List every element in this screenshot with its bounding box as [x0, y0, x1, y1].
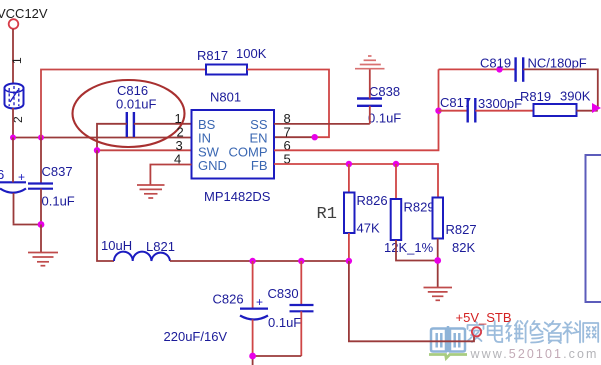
ground at IC pin4: [137, 185, 165, 198]
wire R829 top lead: [395, 164, 397, 199]
junction node SW: [94, 147, 100, 153]
char zi: [544, 321, 561, 343]
watermark chinese characters: [468, 321, 599, 343]
svg-text:12K_1%: 12K_1%: [384, 240, 434, 255]
node +5V_STB terminal circle: [472, 327, 481, 336]
capacitor C830: [268, 261, 314, 356]
resistor R819: [534, 104, 577, 116]
svg-text:0.01uF: 0.01uF: [116, 97, 157, 112]
svg-text:0.1uF: 0.1uF: [268, 315, 301, 330]
watermark book base: [429, 355, 467, 359]
wire FB pin5: [274, 164, 438, 198]
svg-text:R827: R827: [446, 222, 477, 237]
svg-text:C819: C819: [480, 56, 511, 71]
wire output to +5V_STB: [349, 261, 474, 341]
port arrow right: [592, 103, 601, 113]
junction node output C830: [298, 258, 304, 264]
wire bead to IN net: [12, 108, 14, 138]
svg-text:6: 6: [0, 167, 4, 182]
svg-text:10uH: 10uH: [101, 238, 132, 253]
wire C816 left plate to SW node: [97, 124, 127, 151]
ground inverted above C838: [355, 56, 385, 69]
wire C819 top row: [439, 68, 516, 70]
wire caps to ground junction: [14, 223, 42, 226]
wire R819 right to port: [577, 110, 598, 112]
ferrite bead F801: [5, 84, 24, 109]
wire R817 right to EN: [247, 70, 329, 138]
wire stub below C826 junction: [252, 356, 254, 365]
svg-text:R817: R817: [197, 48, 228, 63]
svg-text:390K: 390K: [560, 89, 591, 104]
capacitor C826: [164, 261, 269, 356]
wire R829 bottom to R827: [396, 240, 438, 261]
svg-text:C830: C830: [268, 286, 299, 301]
svg-text:FB: FB: [251, 158, 268, 173]
svg-text:R829: R829: [404, 200, 435, 215]
svg-text:47K: 47K: [357, 221, 380, 236]
svg-text:0.1uF: 0.1uF: [368, 111, 401, 126]
svg-text:C817: C817: [440, 95, 471, 110]
char jia: [468, 321, 484, 342]
node VCC12V terminal circle: [9, 19, 19, 29]
capacitor C837: [28, 138, 75, 225]
wire IN net horizontal: [13, 137, 192, 139]
connector J8 partial box right: [586, 155, 601, 302]
wire output net: [170, 260, 349, 262]
resistor R827: [433, 198, 444, 239]
svg-text:R819: R819: [520, 89, 551, 104]
wire C817 row: [439, 110, 468, 112]
watermark logo bottom right: [429, 321, 599, 361]
junction node R829-R827: [434, 257, 441, 264]
junction node output C826: [249, 258, 255, 264]
watermark book icon: [431, 326, 465, 352]
svg-text:0.1uF: 0.1uF: [42, 194, 75, 209]
svg-text:3300pF: 3300pF: [478, 96, 522, 111]
junction node FB-R829: [393, 161, 399, 167]
wire VCC12V to bead: [12, 29, 14, 84]
char wei: [506, 321, 523, 342]
svg-text:VCC12V: VCC12V: [0, 6, 48, 21]
svg-text:+5V_STB: +5V_STB: [456, 310, 512, 325]
resistor R829: [391, 199, 402, 240]
svg-text:100K: 100K: [236, 46, 267, 61]
capacitor C835 partial at left edge: [0, 138, 26, 224]
svg-text:C826: C826: [213, 292, 244, 307]
svg-text:GND: GND: [198, 158, 227, 173]
svg-text:MP1482DS: MP1482DS: [204, 189, 271, 204]
wire caps bottom net: [253, 355, 302, 357]
junction node output R826: [346, 258, 352, 264]
svg-text:www.520101.com: www.520101.com: [470, 347, 599, 361]
junction node EN: [312, 134, 318, 140]
wire R817 left leg: [41, 70, 206, 138]
wire EN pin7: [274, 136, 315, 138]
inductor L821: [101, 238, 175, 261]
char liao: [563, 321, 580, 343]
junction node C837 bottom: [38, 221, 45, 228]
svg-text:1: 1: [10, 57, 24, 64]
wire C819 right to port: [523, 69, 598, 107]
wire SW node down to L821: [97, 150, 114, 261]
svg-text:220uF/16V: 220uF/16V: [164, 329, 228, 344]
wire SW pin3: [97, 149, 192, 151]
wire C816 right plate to BS: [134, 123, 192, 125]
char dian: [488, 321, 503, 342]
junction node on C819 wire: [496, 66, 502, 72]
svg-text:C837: C837: [42, 164, 73, 179]
wire R826 top lead: [348, 164, 350, 193]
ground below R827: [424, 288, 453, 301]
wire SS pin8 to C838: [274, 123, 370, 125]
wire R826 bottom lead: [348, 233, 350, 261]
wire R827 bottom lead: [437, 239, 439, 288]
char xiu: [525, 321, 544, 343]
wire COMP pin6 to RC network: [274, 69, 439, 150]
capacitor C838: [357, 70, 401, 126]
svg-text:NC/180pF: NC/180pF: [528, 56, 587, 71]
resistor R826: [344, 193, 355, 234]
resistor R817: [206, 65, 247, 75]
junction node FB-R826: [346, 161, 352, 167]
capacitor C816: [116, 83, 157, 137]
highlight ellipse around C816: [73, 80, 185, 147]
svg-text:C838: C838: [369, 84, 400, 99]
ground below C837: [28, 253, 58, 266]
svg-text:82K: 82K: [452, 240, 475, 255]
wire junction to ground: [40, 225, 42, 253]
junction node caps bottom: [249, 353, 256, 360]
junction node at bead output: [10, 135, 16, 141]
wire GND pin4 to ground: [150, 165, 191, 186]
capacitor C819: [480, 56, 587, 82]
junction node C817 branch: [435, 108, 441, 114]
wire C817 to R819: [475, 110, 533, 112]
svg-text:N801: N801: [210, 90, 241, 105]
svg-text:R1: R1: [317, 205, 337, 224]
svg-text:+: +: [256, 295, 263, 309]
op-amp U1 IC N801 MP1482DS box: [192, 110, 275, 179]
junction node at C837 top: [38, 135, 44, 141]
capacitor C817: [440, 95, 522, 123]
char wang: [583, 323, 598, 342]
svg-text:+: +: [18, 170, 25, 184]
svg-text:R826: R826: [357, 193, 388, 208]
